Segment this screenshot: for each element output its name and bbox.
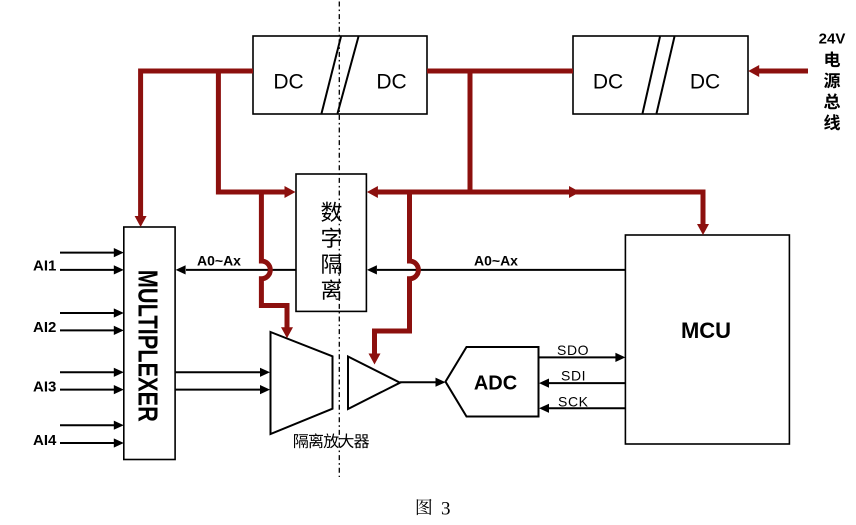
wire analog input AI4 pair: [60, 421, 124, 448]
wire A0~Ax select bus (isolated side): [176, 265, 296, 274]
svg-text:AI3: AI3: [33, 378, 56, 395]
svg-text:SDO: SDO: [557, 342, 589, 358]
isolation amplifier U3 (input stage trapezoid): [271, 332, 333, 434]
svg-text:MCU: MCU: [681, 318, 731, 343]
svg-text:ADC: ADC: [474, 372, 517, 394]
svg-text:A0~Ax: A0~Ax: [197, 252, 241, 268]
wire amplifier output to ADC: [400, 378, 446, 387]
wire SCK: [539, 404, 625, 413]
svg-text:SDI: SDI: [561, 368, 586, 384]
wire power branch to digital isolator left: [218, 73, 295, 198]
wire analog input AI3 pair: [60, 368, 124, 395]
svg-text:AI2: AI2: [33, 319, 56, 336]
isolation amplifier U3 (output stage triangle): [348, 357, 400, 410]
wire power drop to amplifier output stage (with hop over A0~Ax): [369, 190, 419, 365]
DC-DC converter B1 (field side): [253, 36, 427, 114]
wire SDO: [539, 353, 626, 362]
wire A0~Ax select bus (MCU side): [367, 265, 626, 274]
wire power drop to amplifier input stage (with hop over A0~Ax): [261, 190, 293, 338]
svg-text:3: 3: [441, 499, 451, 520]
label 隔离放大器 (isolation amplifier): [294, 433, 369, 448]
wire analog input AI1 pair: [60, 248, 124, 275]
wire analog input AI2 pair: [60, 308, 124, 335]
svg-text:DC: DC: [690, 70, 720, 93]
ADC U4: [446, 347, 539, 417]
wire 24V power bus feed to B2: [748, 65, 808, 77]
svg-text:AI1: AI1: [33, 257, 56, 274]
svg-text:24V: 24V: [819, 31, 846, 48]
svg-text:DC: DC: [273, 70, 303, 93]
svg-text:A0~Ax: A0~Ax: [474, 252, 518, 268]
svg-text:DC: DC: [376, 70, 406, 93]
wire multiplexer output pair to amplifier: [176, 368, 270, 395]
svg-text:MULTIPLEXER: MULTIPLEXER: [133, 270, 164, 422]
wire top power bus B2 to B1: [427, 69, 573, 74]
multiplexer U1: [124, 227, 175, 460]
wire SDI: [539, 379, 625, 388]
MCU U5: [625, 235, 789, 444]
DC-DC converter B2 (system side): [573, 36, 748, 114]
wire power branch down to mid bus (node T1): [468, 73, 473, 192]
isolation barrier centerline: [338, 2, 340, 478]
wire top power bus B1 to multiplexer supply: [135, 71, 253, 227]
digital isolator U2 数字隔离: [296, 174, 366, 311]
svg-text:AI4: AI4: [33, 432, 57, 449]
wire mid power bus to digital isolator right and MCU: [367, 186, 709, 235]
svg-text:SCK: SCK: [558, 394, 589, 410]
label 24V 电源总线 (24V power bus): [819, 31, 846, 131]
caption 图 3: [417, 499, 451, 520]
svg-text:DC: DC: [593, 70, 623, 93]
